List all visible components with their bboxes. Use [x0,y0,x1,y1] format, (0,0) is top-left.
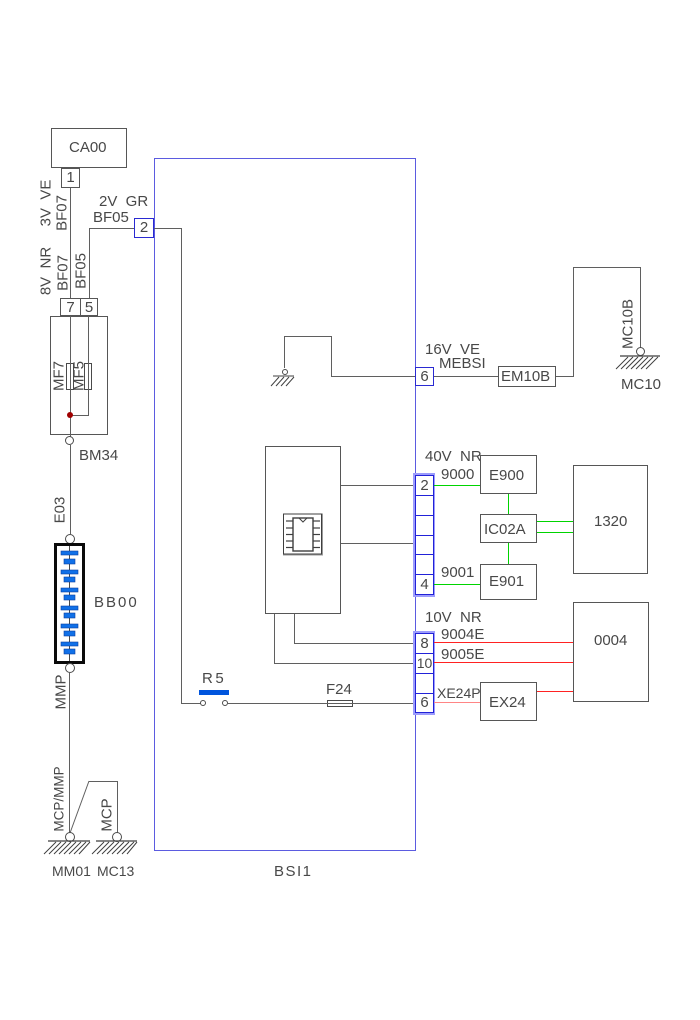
BSI1 label [274,864,313,879]
battery bottom terminal circle [65,663,75,673]
wire EM10B to MC10B riser [556,376,574,377]
wire F24 to pin 6 [353,703,415,704]
pin 8 [415,633,434,654]
green wire 9000 [434,485,480,486]
wire module to pin2 (40V) [341,485,416,486]
net label 40V NR [425,449,482,464]
net label MMP [54,675,69,710]
wire label MC10B [621,299,636,349]
net label 3V VE [39,180,54,227]
wire label BF07 (lower) [56,255,71,291]
net label 8V NR [39,247,54,295]
pin 1 of CA00 [61,168,80,188]
ground MM01 [65,832,75,842]
net label 10V NR [425,610,482,625]
pin 2 of BSI1 [134,218,154,238]
wire module bottom to pin10 [274,614,275,663]
battery BB00 [54,543,85,664]
wire module bottom to pin8 [294,614,295,643]
fuse MF7 label [52,361,67,391]
wire junction horizontal [70,415,89,416]
wire label 9001 [441,565,474,580]
pin 5 of fuse box [80,298,98,316]
unit 0004 [573,602,649,702]
wire MCP vertical [117,781,118,833]
wire MF7 down [70,390,71,437]
red link EX24-0004 [537,691,573,692]
wire label XE24P [437,686,481,701]
pin 7 of fuse box [60,298,81,316]
connector circle BM34 [65,436,74,445]
green link IC02A-1320 a [537,521,573,522]
wire down inside BSI to R5 [181,228,182,703]
40V pin header outer [413,473,435,597]
net label MCP/MMP [52,766,67,831]
empty cells [415,495,434,516]
wire BF05 vertical drop to pin5 [89,228,90,298]
fuse F24 [326,682,352,697]
wire R5 to F24 [228,703,327,704]
connector E900 [480,455,537,494]
connector EX24 [480,682,537,721]
wire battery to ground MM01 [69,673,70,833]
unit 1320 [573,465,648,574]
junction dot (red) [67,412,73,418]
wire ground up [284,336,285,368]
connector IC02A [480,514,537,543]
ground MC13 [112,832,122,842]
wire label MEBSI [439,356,486,371]
wire pin1 to pin7 [70,188,71,298]
wire top horizontal [284,336,331,337]
red wire 9004E [434,642,573,643]
wire BM34 to battery [70,445,71,534]
pin 2 (40V) [415,475,434,496]
green link IC02A-E901 [508,543,509,564]
wire pin6 to EM10B [434,376,498,377]
green link E900-IC02A [508,494,509,514]
empty cell [415,673,434,694]
green link IC02A-1320 b [537,532,573,533]
fuse MF7 [66,363,74,390]
net label MCP [100,798,115,831]
fuse MF5 [84,363,92,390]
connector EM10B [498,366,556,387]
wire MCP horizontal [89,781,117,782]
battery BB00 top terminal circle [65,534,75,544]
wire pin2 left to BF05 drop [89,228,134,229]
pink wire XE24P [434,702,480,703]
red wire 9005E [434,662,573,663]
wire pin2 right into BSI [154,228,182,229]
wire label BF05 [93,210,129,225]
10V pin header outer [413,631,435,715]
BSI1 control-unit boundary box [154,158,416,851]
BM34 label [79,448,118,463]
wire label BF05 (lower) [74,253,89,289]
net label 16V VE [425,342,480,357]
wire module to cell4 [341,543,416,544]
wire pin5 to fuse MF5 [88,316,89,363]
BB00 label [94,595,139,610]
pin 6 (XE24P) [415,693,434,713]
wire pin7 to fuse MF7 [70,316,71,363]
ground MC10 [636,347,645,356]
net label E03 [53,497,68,524]
micro-module box inside BSI [265,446,341,614]
wire down to pin6 level [331,336,332,376]
wire label BF07 [55,195,70,231]
IC U1 (DIP symbol) [283,512,324,557]
pin 6 MEBSI [415,367,434,386]
connector CA00 [51,128,127,168]
wire right to pin6 MEBSI [331,376,415,377]
connector E901 [480,564,537,600]
pin 4 [415,574,434,595]
fuse MF5 label [72,361,87,391]
wire label 9005E [441,647,484,662]
fuse holder box BM34 [50,316,108,435]
net label 2V GR [99,194,148,209]
wire MF5 down to junction [88,390,89,415]
wire label 9000 [441,467,474,482]
green wire 9001 [434,584,480,585]
wire label 9004E [441,627,484,642]
pin 10 [415,653,434,674]
switch R5 [181,703,201,704]
internal ground of BSI [282,369,288,375]
